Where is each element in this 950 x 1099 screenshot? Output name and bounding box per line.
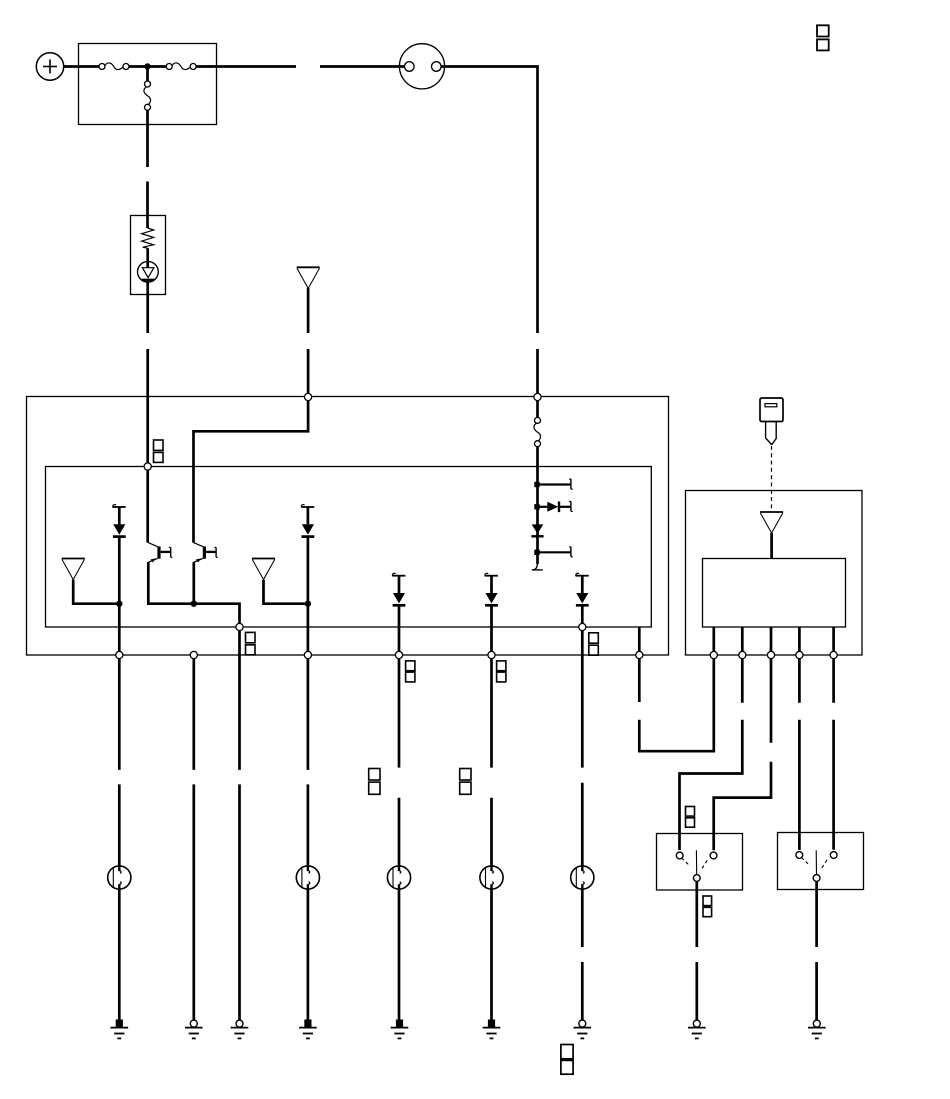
node circle U2 pin 1 <box>710 651 717 658</box>
node circle pin 1 (lamp circuit) <box>116 651 123 658</box>
inline connector C4 <box>387 866 410 889</box>
label tofu (wire color) <box>686 807 695 828</box>
wire sensor pin3 down <box>770 659 773 743</box>
wire F1 to junction <box>129 65 167 68</box>
terminal tick 1 <box>569 479 573 489</box>
node on top edge (ignition feed) <box>534 393 541 400</box>
wire A2 to LED D2 node <box>264 580 308 604</box>
wire S1 common down <box>695 882 698 948</box>
label tofu (pin label) <box>246 632 256 654</box>
connector C1 <box>399 44 444 89</box>
sensor block <box>703 559 846 628</box>
sensor pin 5 <box>832 627 835 651</box>
switch S1 contacts <box>676 850 717 881</box>
junction node D <box>534 550 539 555</box>
wire resume to ground G7 <box>581 962 584 1020</box>
wire C4 to ground <box>398 889 401 1020</box>
diode D5 <box>576 573 589 605</box>
wire D5 down <box>581 605 584 623</box>
wire pin5 resume to switch S2 <box>832 720 835 850</box>
wire D4 circuit down <box>490 659 493 768</box>
wire resume to ground G2 <box>192 784 195 1020</box>
wire bus down <box>238 631 241 770</box>
fuse box (under-hood fuse/relay box) <box>79 44 217 125</box>
wire node to transistor Q2 collector <box>194 401 309 543</box>
junction node A <box>144 63 150 69</box>
wire D3 circuit down <box>398 659 401 768</box>
label tofu (pin label D3) <box>406 661 415 682</box>
wire sensor pin5 down <box>832 659 835 703</box>
label tofu (pin label right) <box>589 633 599 655</box>
ground G6 <box>483 1020 501 1039</box>
node circle pin 6 (sender signal) <box>636 651 643 658</box>
ground G9 <box>808 1020 826 1038</box>
stub wire to terminal 3 <box>538 551 571 553</box>
battery B1 <box>36 53 63 80</box>
wire C5 to ground <box>490 889 493 1020</box>
dashed key-to-sensor link <box>771 446 773 511</box>
emitter bus wire Q1-Q2 <box>148 562 239 623</box>
wire pin3 resume to switch S1 <box>714 762 771 850</box>
node circle pin 2 (emitter circuit) <box>190 651 197 658</box>
ground G3 <box>231 1020 249 1038</box>
ground G7 <box>574 1020 592 1038</box>
label tofu (S1 name) <box>703 896 712 917</box>
wire resume to gauge unit <box>146 349 149 463</box>
wire lamp resume <box>118 784 121 866</box>
fuse F2 <box>166 63 196 70</box>
wire LED D1 down <box>118 537 121 652</box>
wire node to transistor Q1 collector <box>146 470 149 542</box>
indicator LED D1 <box>113 505 126 537</box>
wire to diode D6 <box>538 506 548 508</box>
wire C3 to ground <box>307 889 310 1020</box>
sensor pin 3 <box>770 627 773 651</box>
node circle on inner box bottom <box>236 623 243 630</box>
ground G8 <box>688 1020 706 1038</box>
inline connector C2 <box>108 866 131 889</box>
wire S2 common down <box>815 882 818 948</box>
wire end hook <box>532 562 543 570</box>
switch S2 box <box>778 833 864 890</box>
diode D4 <box>485 573 498 605</box>
wire F3 down <box>146 110 149 167</box>
fuse F4 (internal) <box>534 417 541 446</box>
wire F4 into diode network <box>536 446 539 564</box>
triangle node symbol (logic input) <box>297 267 320 288</box>
warning lamp L1 (LED) <box>138 261 159 282</box>
wire node to F4 <box>536 401 539 418</box>
wire LED D2 down <box>307 537 310 652</box>
label tofu (page title) <box>817 25 829 50</box>
terminal tick 3 <box>569 547 573 557</box>
ground G2 <box>185 1020 203 1038</box>
wire resume to ground G3 <box>238 784 241 1020</box>
wire resume to box node <box>307 349 310 393</box>
gauge assembly outer box U1 <box>27 397 669 656</box>
label tofu (wire color 1) <box>369 769 380 795</box>
node on inner box top edge <box>144 463 151 470</box>
wire D5 resume <box>581 783 584 866</box>
junction node E <box>116 601 122 607</box>
wire lamp down <box>146 281 149 333</box>
wire battery to fuse F1 <box>64 65 100 68</box>
junction node G <box>305 601 311 607</box>
wire resume <box>398 798 401 866</box>
wire lamp circuit down <box>118 659 121 770</box>
sensor pin 2 <box>741 627 744 651</box>
sensor pin 1 <box>712 627 715 651</box>
diode D7 (series, points down) <box>531 524 543 536</box>
fuse F3 <box>144 81 151 110</box>
wire ignition feed resume <box>536 349 539 393</box>
ground G5 <box>391 1020 409 1039</box>
sensor triangle A3 <box>760 512 783 533</box>
wire Q emitters down <box>192 659 195 770</box>
wire LED2 circuit down <box>307 659 310 770</box>
node circle U2 pin 3 <box>767 651 774 658</box>
wire U-link resume <box>639 659 714 752</box>
transistor Q2 <box>194 543 218 563</box>
junction node B <box>534 482 539 487</box>
diode D6 (blocking, points right) <box>547 502 571 513</box>
terminal tick 2 <box>569 501 573 511</box>
wire resume <box>307 784 310 866</box>
wire resume to lamp box <box>146 182 149 229</box>
wire triangle down <box>307 288 310 333</box>
wire pin4 resume to switch S2 <box>798 720 801 850</box>
wire D3 down <box>398 605 401 651</box>
wire pin2 resume to switch S1 <box>680 720 743 850</box>
junction node F <box>191 601 197 607</box>
node circle pin 5 (diode D4 circuit) <box>488 651 495 658</box>
emitter wire Q2 <box>192 562 195 604</box>
diode D3 <box>392 573 405 605</box>
wire F2 to page break <box>196 65 296 68</box>
wire U-link gauge to sensor (left leg) <box>638 659 641 702</box>
wire C1 to ignition feed corner <box>441 67 537 334</box>
wire A3 to sensor block <box>770 533 773 559</box>
label tofu (ground label) <box>561 1045 573 1075</box>
node circle pin 3 (LED2 circuit) <box>304 651 311 658</box>
wire sensor pin2 down <box>741 659 744 703</box>
wire C6 down <box>581 889 584 947</box>
indicator LED D2 <box>301 505 314 537</box>
wire junction to F3 <box>146 69 149 81</box>
resistor R1 <box>142 228 154 248</box>
junction node C <box>534 504 539 509</box>
wire D5 continue <box>581 631 584 768</box>
wire R1 to lamp <box>146 248 149 267</box>
label tofu (pin label D4) <box>497 661 506 682</box>
pin wire sender output <box>638 627 641 651</box>
amplifier triangle A1 <box>62 559 85 580</box>
transistor Q1 <box>148 543 172 563</box>
wire resume <box>490 798 493 866</box>
amplifier triangle A2 <box>252 559 275 580</box>
switch S1 box <box>657 834 743 891</box>
wire sensor pin4 down <box>798 659 801 703</box>
sender unit box U2 <box>686 491 863 656</box>
stub wire to terminal 1 <box>538 483 571 485</box>
ground G4 <box>299 1020 317 1039</box>
inner pcb box <box>46 467 652 628</box>
wire S2 resume to ground <box>815 962 818 1020</box>
label tofu (wire color 2) <box>460 769 471 795</box>
brake warning lamp box <box>131 216 166 295</box>
fuse F1 <box>99 63 129 70</box>
ignition key symbol <box>760 398 783 444</box>
node circle pin 4 (diode D3 circuit) <box>395 651 402 658</box>
ground G1 <box>111 1020 129 1039</box>
node circle U2 pin 4 <box>796 651 803 658</box>
inline connector C3 <box>296 866 319 889</box>
inline connector C6 <box>571 866 594 889</box>
label tofu (circuit name) <box>154 440 164 462</box>
node on top edge (illumination feed) <box>305 393 312 400</box>
wire A1 to LED D1 node <box>73 580 119 604</box>
wire S1 resume to ground <box>695 962 698 1020</box>
node circle on inner box bottom right <box>579 623 586 630</box>
node circle U2 pin 5 <box>830 651 837 658</box>
node circle U2 pin 2 <box>739 651 746 658</box>
switch S2 contacts <box>796 850 837 881</box>
sensor pin 4 <box>798 627 801 651</box>
wire D4 down <box>490 605 493 651</box>
wire C2 to ground <box>118 889 121 1020</box>
wire segment to connector C1 <box>320 65 404 68</box>
inline connector C5 <box>480 866 503 889</box>
